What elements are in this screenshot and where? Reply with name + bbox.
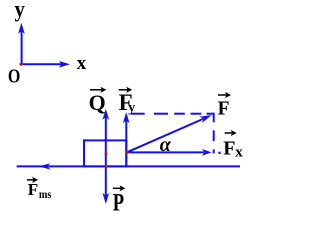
svg-text:y: y [128,101,135,116]
svg-text:y: y [15,0,25,22]
svg-text:x: x [235,144,243,160]
svg-text:O: O [8,65,20,87]
svg-text:F: F [218,99,230,120]
svg-text:P: P [113,188,124,212]
svg-text:Q: Q [89,90,106,115]
svg-text:F: F [223,137,235,159]
svg-text:x: x [77,53,87,74]
svg-text:α: α [160,134,172,156]
svg-text:ms: ms [39,188,52,201]
svg-text:F: F [28,180,38,199]
